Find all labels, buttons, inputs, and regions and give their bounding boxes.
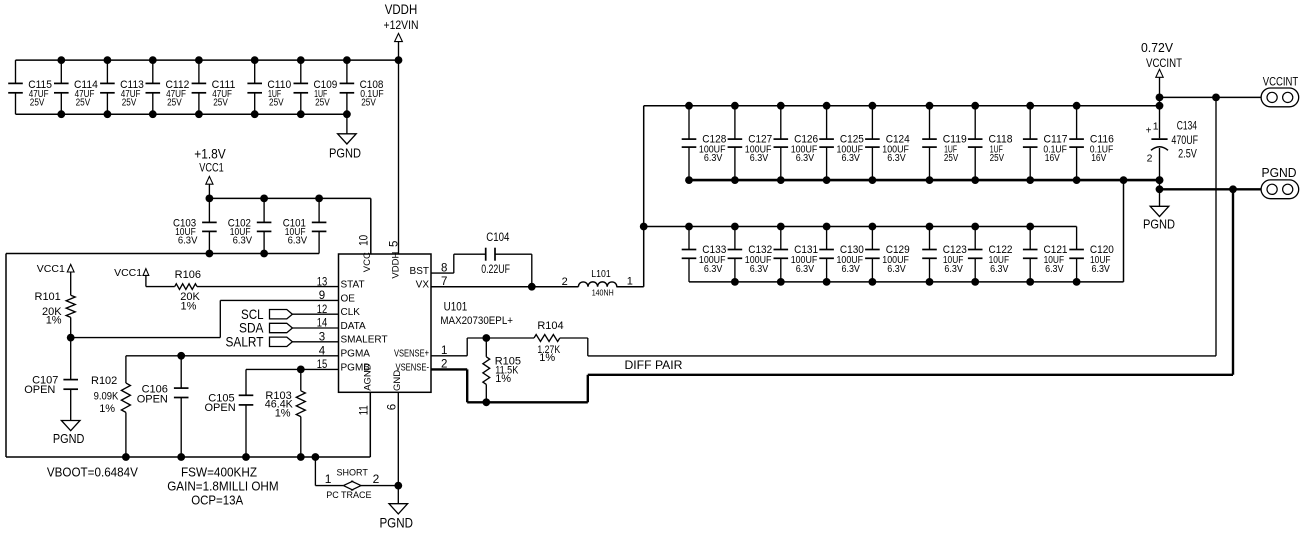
- capacitor C114 47UF 25V: [54, 60, 98, 114]
- svg-text:25V: 25V: [167, 97, 182, 108]
- svg-text:1%: 1%: [495, 373, 511, 385]
- svg-text:16V: 16V: [1045, 153, 1060, 164]
- resistor R106 20K 1%: [146, 269, 339, 313]
- capacitor C124 100UF 6.3V: [865, 106, 910, 180]
- svg-text:11: 11: [359, 405, 371, 415]
- capacitor C111 47UF 25V: [192, 60, 236, 114]
- svg-text:6.3V: 6.3V: [887, 264, 906, 275]
- svg-text:PGND: PGND: [329, 147, 361, 161]
- svg-text:0.22UF: 0.22UF: [481, 264, 510, 276]
- wire BST pin 8: [431, 254, 486, 273]
- capacitor C132 100UF 6.3V: [728, 227, 773, 282]
- svg-text:1: 1: [627, 276, 633, 288]
- svg-text:25V: 25V: [315, 97, 330, 108]
- svg-text:1: 1: [325, 472, 332, 486]
- svg-text:1%: 1%: [275, 408, 291, 420]
- svg-text:6.3V: 6.3V: [842, 153, 861, 164]
- svg-text:OPEN: OPEN: [24, 384, 55, 396]
- capacitor C130 100UF 6.3V: [819, 227, 864, 282]
- svg-text:6.3V: 6.3V: [990, 264, 1009, 275]
- capacitor C106 OPEN: [137, 356, 189, 461]
- op-amp U101 MAX20730EPL+ (IC body): [339, 254, 432, 392]
- svg-text:+: +: [1146, 126, 1152, 137]
- svg-text:+12VIN: +12VIN: [384, 20, 419, 32]
- capacitor C105 OPEN: [205, 369, 254, 461]
- wire VCCINT top rail: [644, 102, 1164, 110]
- svg-text:9: 9: [319, 290, 325, 302]
- svg-text:SMALERT: SMALERT: [341, 335, 388, 346]
- wire VDDH feed to U101 pin 5: [398, 42, 400, 254]
- svg-text:PGND: PGND: [53, 432, 85, 446]
- wire input bottom rail (PGND): [16, 110, 351, 118]
- svg-text:140NH: 140NH: [592, 287, 614, 297]
- wire AGND loop (left edge + bottom rail to pin 11): [6, 254, 370, 458]
- resistor R101 20K 1%: [35, 272, 76, 337]
- svg-text:VCCINT: VCCINT: [1263, 74, 1299, 88]
- svg-text:25V: 25V: [269, 97, 284, 108]
- capacitor C112 47UF 25V: [146, 60, 190, 114]
- svg-text:6.3V: 6.3V: [704, 153, 723, 164]
- wire R101/C107 node to OE pin 9: [67, 300, 339, 341]
- svg-text:16V: 16V: [1091, 153, 1106, 164]
- capacitor C110 1UF 25V: [247, 60, 291, 114]
- resistor R104 1.27K 1%: [534, 320, 564, 364]
- wire C104 to VX node: [495, 254, 536, 290]
- ground PGND (bottom): [379, 504, 413, 531]
- svg-text:VDDH: VDDH: [390, 252, 401, 279]
- svg-text:6.3V: 6.3V: [887, 153, 906, 164]
- wire PGND to connector (heavy): [1160, 185, 1262, 193]
- capacitor C104 0.22UF: [481, 232, 510, 276]
- svg-text:6.3V: 6.3V: [750, 264, 769, 275]
- svg-text:2: 2: [373, 472, 380, 486]
- svg-text:R102: R102: [91, 375, 117, 387]
- ground PGND (C134): [1143, 206, 1175, 231]
- svg-text:6.3V: 6.3V: [750, 153, 769, 164]
- capacitor C134 470UF 2.5V (polarized): [1146, 106, 1199, 207]
- capacitor C121 10UF 6.3V: [1023, 227, 1068, 282]
- inductor L101 140NH: [562, 268, 633, 297]
- svg-text:10: 10: [359, 235, 371, 246]
- svg-text:6.3V: 6.3V: [796, 264, 815, 275]
- capacitor C123 10UF 6.3V: [922, 227, 967, 282]
- svg-text:SHORT: SHORT: [337, 467, 369, 477]
- svg-text:R106: R106: [175, 269, 201, 281]
- svg-text:FSW=400KHZ: FSW=400KHZ: [181, 465, 257, 480]
- svg-text:VCC1: VCC1: [114, 267, 142, 279]
- svg-text:+1.8V: +1.8V: [194, 146, 226, 161]
- capacitor C115 47UF 25V: [8, 60, 52, 114]
- connector VCCINT: [1261, 74, 1299, 106]
- wire VCC1 rail to U101 pin 10: [206, 195, 371, 255]
- svg-text:VDDH: VDDH: [385, 2, 418, 17]
- svg-text:BST: BST: [410, 266, 429, 277]
- svg-text:PC TRACE: PC TRACE: [326, 490, 371, 500]
- svg-text:2.5V: 2.5V: [1178, 149, 1197, 161]
- svg-text:CLK: CLK: [341, 307, 361, 318]
- resistor R102 9.09K 1%: [91, 356, 130, 461]
- svg-text:VSENSE+: VSENSE+: [394, 349, 429, 360]
- svg-text:6.3V: 6.3V: [796, 153, 815, 164]
- svg-text:C104: C104: [486, 232, 510, 244]
- svg-text:SALRT: SALRT: [226, 334, 264, 350]
- svg-text:6.3V: 6.3V: [178, 236, 198, 247]
- wire PGND return (bottom bank bottom rail): [689, 180, 1124, 286]
- capacitor C109 1UF 25V: [294, 60, 338, 114]
- wire L101 to output node: [616, 106, 647, 287]
- capacitor C126 100UF 6.3V: [774, 106, 819, 180]
- capacitor C131 100UF 6.3V: [774, 227, 819, 282]
- svg-text:VCC1: VCC1: [199, 161, 224, 175]
- wire VSENSE- pin 2 net (heavy) to PGND sense point: [431, 189, 1233, 406]
- capacitor C127 100UF 6.3V: [728, 106, 773, 180]
- svg-text:1%: 1%: [99, 403, 115, 415]
- svg-text:VX: VX: [416, 280, 430, 291]
- svg-text:470UF: 470UF: [1171, 135, 1198, 147]
- power VCC1 (R101 top): [37, 263, 74, 275]
- net flag SALRT: [226, 334, 339, 350]
- svg-text:6.3V: 6.3V: [842, 264, 861, 275]
- svg-text:12: 12: [317, 304, 328, 316]
- wire VSENSE+ to VCCINT sense point: [560, 97, 1216, 356]
- capacitor C113 47UF 25V: [100, 60, 144, 114]
- svg-text:VCC: VCC: [362, 252, 373, 272]
- wire VDDH top rail: [16, 56, 403, 64]
- wire GND pin 6 to PGND: [397, 392, 399, 503]
- wire VCCINT lower rail (bottom bank top): [644, 223, 1077, 231]
- wire PGMA pin 4 net: [126, 352, 339, 360]
- svg-text:25V: 25V: [122, 97, 137, 108]
- svg-text:1%: 1%: [181, 301, 197, 313]
- svg-text:OCP=13A: OCP=13A: [191, 493, 243, 508]
- capacitor C107 OPEN: [24, 338, 78, 421]
- svg-text:MAX20730EPL+: MAX20730EPL+: [440, 315, 513, 327]
- svg-text:0.72V: 0.72V: [1141, 40, 1173, 55]
- net flag SDA: [239, 320, 339, 336]
- wire PGND mid rail (heavy): [685, 176, 1163, 184]
- svg-text:R104: R104: [537, 320, 563, 332]
- svg-text:1: 1: [1153, 121, 1159, 133]
- capacitor C125 100UF 6.3V: [819, 106, 864, 180]
- power VDDH +12VIN: [384, 2, 419, 42]
- capacitor C133 100UF 6.3V: [682, 227, 727, 282]
- svg-text:VBOOT=0.6484V: VBOOT=0.6484V: [47, 465, 138, 480]
- svg-text:4: 4: [319, 345, 326, 357]
- svg-text:L101: L101: [591, 268, 611, 280]
- svg-text:6.3V: 6.3V: [1045, 264, 1064, 275]
- svg-text:15: 15: [317, 359, 328, 371]
- svg-text:2: 2: [562, 276, 568, 288]
- capacitor C118 1UF 25V: [968, 106, 1013, 180]
- svg-text:1%: 1%: [46, 315, 62, 327]
- svg-text:6.3V: 6.3V: [1092, 264, 1111, 275]
- svg-text:25V: 25V: [944, 153, 959, 164]
- capacitor C116 0.1UF 16V: [1069, 106, 1114, 180]
- svg-text:25V: 25V: [213, 97, 228, 108]
- capacitor C108 0.1UF 25V: [340, 60, 384, 114]
- svg-text:U101: U101: [444, 301, 468, 313]
- capacitor C120 10UF 6.3V: [1069, 227, 1114, 282]
- wire VCCINT to connector: [1160, 94, 1262, 102]
- svg-text:GND: GND: [392, 370, 403, 391]
- svg-text:6.3V: 6.3V: [233, 236, 253, 247]
- resistor R103 46.4K 1%: [265, 369, 306, 461]
- svg-text:6.3V: 6.3V: [944, 264, 963, 275]
- svg-text:GAIN=1.8MILLI OHM: GAIN=1.8MILLI OHM: [167, 479, 278, 494]
- svg-text:6.3V: 6.3V: [288, 236, 308, 247]
- svg-text:25V: 25V: [990, 153, 1005, 164]
- svg-text:PGND: PGND: [1143, 218, 1175, 232]
- svg-text:DIFF PAIR: DIFF PAIR: [625, 358, 683, 372]
- svg-text:2: 2: [1147, 153, 1153, 165]
- capacitor C117 0.1UF 16V: [1023, 106, 1068, 180]
- svg-text:OPEN: OPEN: [137, 393, 168, 405]
- svg-text:14: 14: [317, 318, 328, 330]
- svg-text:9.09K: 9.09K: [94, 390, 119, 402]
- ground PGND (C107): [53, 421, 85, 447]
- wire VX pin 7: [431, 286, 578, 288]
- svg-text:5: 5: [388, 241, 400, 247]
- ground PGND (input bank): [329, 114, 361, 161]
- svg-text:6.3V: 6.3V: [704, 264, 723, 275]
- svg-text:OE: OE: [341, 293, 356, 304]
- svg-text:R101: R101: [35, 291, 61, 303]
- svg-text:25V: 25V: [76, 97, 91, 108]
- svg-text:13: 13: [317, 276, 328, 288]
- jumper SHORT / PC TRACE: [312, 453, 403, 500]
- connector PGND: [1261, 166, 1299, 199]
- svg-text:C134: C134: [1177, 121, 1198, 133]
- svg-text:25V: 25V: [361, 97, 376, 108]
- svg-text:VCC1: VCC1: [37, 263, 65, 275]
- svg-text:AGND: AGND: [362, 363, 373, 391]
- wire VSENSE+ pin 1 net (R104 sense line): [431, 334, 534, 356]
- power VCCINT 0.72V: [1141, 40, 1183, 106]
- svg-text:PGND: PGND: [1262, 166, 1297, 180]
- capacitor C119 1UF 25V: [922, 106, 967, 180]
- wire PGMB pin 15 net: [246, 366, 339, 374]
- svg-text:OPEN: OPEN: [205, 402, 236, 414]
- svg-text:PGMA: PGMA: [341, 349, 371, 360]
- svg-text:VCCINT: VCCINT: [1146, 56, 1183, 70]
- capacitor C101 10UF 6.3V: [283, 198, 327, 253]
- net flag SCL: [241, 306, 339, 322]
- svg-text:3: 3: [319, 332, 325, 344]
- svg-text:25V: 25V: [30, 97, 45, 108]
- power VCC1 +1.8V: [194, 146, 226, 198]
- capacitor C122 10UF 6.3V: [968, 227, 1013, 282]
- capacitor C103 10UF 6.3V: [173, 198, 217, 253]
- resistor R105 11.5K 1%: [483, 338, 521, 402]
- svg-text:1%: 1%: [539, 352, 555, 364]
- svg-text:6: 6: [387, 404, 399, 410]
- wire VCC1 caps return rail: [6, 250, 319, 258]
- capacitor C102 10UF 6.3V: [228, 198, 272, 253]
- svg-text:STAT: STAT: [341, 280, 365, 291]
- capacitor C128 100UF 6.3V: [682, 106, 727, 180]
- svg-text:DATA: DATA: [341, 321, 367, 332]
- capacitor C129 100UF 6.3V: [865, 227, 910, 282]
- power VCC1 (R106): [114, 267, 149, 287]
- svg-text:PGND: PGND: [379, 515, 413, 531]
